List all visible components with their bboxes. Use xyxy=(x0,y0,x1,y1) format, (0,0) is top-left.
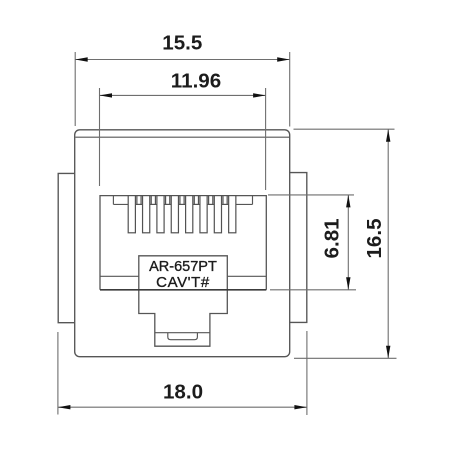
dim 15.5 right arrow xyxy=(277,57,290,61)
dim 6.81 line xyxy=(347,195,349,290)
dim 11.96 right extension line xyxy=(265,88,267,190)
pin 2 xyxy=(143,196,150,233)
separator strip 1 xyxy=(137,196,141,205)
dim 11.96 right arrow xyxy=(253,93,266,97)
dim 11.96 left extension line xyxy=(99,88,101,186)
dim 16.5 bottom extension line xyxy=(294,357,397,359)
separator strip 5 xyxy=(194,196,198,205)
svg-text:6.81: 6.81 xyxy=(321,218,344,258)
dim 16.5 top extension line xyxy=(294,128,395,130)
svg-text:16.5: 16.5 xyxy=(363,218,386,258)
dim 6.81 bottom extension line xyxy=(270,289,356,291)
pin 1 xyxy=(128,196,135,233)
separator strip 6 xyxy=(209,196,213,205)
dim 18.0 left arrow xyxy=(58,405,71,409)
left mounting ear xyxy=(58,173,74,322)
dim 16.5 bottom arrow xyxy=(386,346,390,359)
dim 16.5 line xyxy=(387,129,389,358)
svg-text:CAV'T#: CAV'T# xyxy=(156,274,210,291)
separator strip 7 xyxy=(223,196,227,205)
opening lower inner edge xyxy=(100,275,266,277)
dimension 6.81 xyxy=(268,195,356,290)
svg-text:AR-657PT: AR-657PT xyxy=(149,259,217,275)
dim 6.81 top extension line xyxy=(268,194,354,196)
dim 18.0 line xyxy=(58,406,307,408)
dim 15.5 left extension line xyxy=(74,52,76,126)
separator strip 4 xyxy=(180,196,184,205)
dimension 15.5 xyxy=(75,52,290,127)
jack opening outline xyxy=(100,196,266,290)
contact pins group xyxy=(128,196,236,233)
dimension 16.5 xyxy=(294,129,397,358)
faceplate inner top edge line xyxy=(75,136,289,138)
svg-text:18.0: 18.0 xyxy=(163,381,203,404)
separator strip 2 xyxy=(151,196,155,205)
dim 6.81 bottom arrow xyxy=(346,277,350,290)
dimension 11.96 xyxy=(100,88,266,190)
label plate and nose outline xyxy=(139,256,228,346)
dim 18.0 right arrow xyxy=(294,405,307,409)
svg-text:11.96: 11.96 xyxy=(171,70,221,93)
right mounting ear xyxy=(290,173,307,323)
right notch edge xyxy=(252,196,254,205)
pin 6 xyxy=(200,196,207,233)
svg-text:15.5: 15.5 xyxy=(162,31,202,54)
nose inner line xyxy=(155,332,210,334)
dim 11.96 line xyxy=(100,94,266,96)
left notch edge xyxy=(112,196,114,205)
contact shelf line xyxy=(113,203,252,205)
pin 4 xyxy=(171,196,178,233)
dim 6.81 top arrow xyxy=(346,195,350,208)
dim 15.5 right extension line xyxy=(289,52,291,127)
dimension 18.0 xyxy=(58,331,307,415)
opening bottom edge line xyxy=(100,289,266,291)
pin 3 xyxy=(157,196,164,233)
dim 18.0 left extension line xyxy=(57,332,59,415)
dim 16.5 top arrow xyxy=(386,129,390,142)
separator strip 3 xyxy=(166,196,170,205)
pin 7 xyxy=(214,196,221,233)
faceplate body outline xyxy=(75,130,290,357)
pin 8 xyxy=(229,196,236,233)
dim 15.5 line xyxy=(75,59,290,61)
pin 5 xyxy=(186,196,193,233)
dim 18.0 right extension line xyxy=(306,331,308,415)
latch tab xyxy=(168,333,198,340)
dim 11.96 left arrow xyxy=(100,93,113,97)
dim 15.5 left arrow xyxy=(75,57,88,61)
